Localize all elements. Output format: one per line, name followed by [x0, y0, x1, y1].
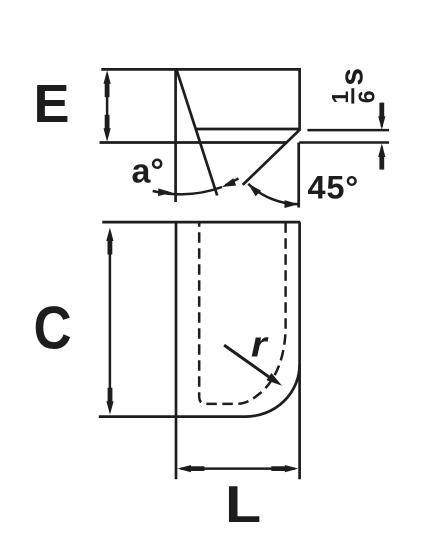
svg-text:r: r — [251, 325, 269, 366]
svg-text:L: L — [225, 475, 261, 533]
svg-text:1: 1 — [327, 91, 353, 104]
svg-text:45°: 45° — [308, 170, 360, 206]
svg-text:6: 6 — [354, 91, 380, 104]
svg-text:E: E — [34, 74, 70, 134]
svg-text:C: C — [34, 295, 72, 362]
svg-text:s: s — [334, 68, 370, 86]
svg-text:a°: a° — [132, 152, 165, 190]
